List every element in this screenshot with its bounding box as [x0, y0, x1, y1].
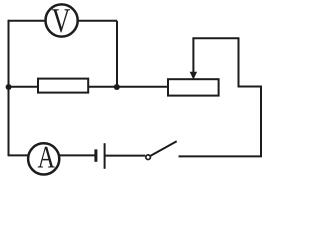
ammeter A: [28, 143, 59, 174]
wire: voltmeter right branch vertical: [116, 21, 118, 88]
node: left junction: [6, 84, 12, 90]
wire: bottom right segment to right-side vertical: [179, 155, 263, 157]
switch S pivot circle: [146, 155, 151, 160]
switch S blade (open): [151, 141, 177, 156]
wire: top horizontal from left corner to voltmeter loop right corner: [9, 20, 118, 22]
node: right junction: [114, 84, 120, 90]
wire: middle horizontal through resistor to rheostat: [9, 86, 169, 88]
battery: short thick plate: [94, 149, 97, 161]
wire: battery to switch pivot: [105, 155, 146, 157]
wire: left vertical side: [8, 20, 10, 156]
battery: long thin plate: [104, 143, 106, 169]
rheostat wiper arrow: [190, 38, 197, 79]
voltmeter V: [46, 4, 78, 36]
wire: bottom left from corner through ammeter to battery: [9, 154, 96, 156]
resistor R1: [38, 79, 88, 93]
wire: wiper top run, right drop, jog and right-side vertical: [192, 38, 261, 156]
rheostat R2 body: [168, 79, 219, 95]
